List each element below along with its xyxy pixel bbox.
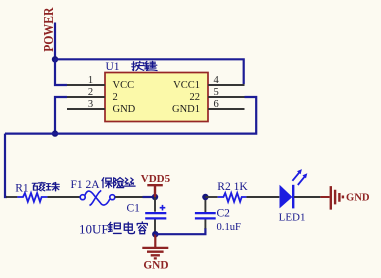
svg-text:LED1: LED1 bbox=[279, 212, 306, 224]
wire C1 node to C2 bottom bbox=[155, 228, 205, 234]
wire top rail to pin 4 bbox=[55, 59, 244, 84]
svg-text:R2 1K: R2 1K bbox=[217, 181, 248, 193]
svg-text:4: 4 bbox=[214, 75, 220, 86]
svg-text:2: 2 bbox=[113, 92, 118, 103]
svg-text:10UF: 10UF bbox=[79, 221, 109, 236]
capacitor C1 bbox=[154, 197, 156, 212]
svg-text:22: 22 bbox=[190, 92, 201, 103]
wire to pin 1 bbox=[55, 59, 67, 85]
svg-text:2: 2 bbox=[88, 87, 93, 98]
power port VDD5 bbox=[147, 185, 163, 197]
wire left drop to R1 bbox=[5, 134, 7, 197]
LED arrow 1 bbox=[292, 172, 299, 180]
pin 3 bbox=[67, 108, 105, 110]
svg-text:6: 6 bbox=[214, 99, 219, 110]
svg-text:VCC1: VCC1 bbox=[173, 80, 200, 91]
wire POWER vertical bbox=[54, 23, 56, 60]
svg-text:GND: GND bbox=[143, 259, 168, 271]
svg-text:5: 5 bbox=[214, 87, 219, 98]
LED arrow 2 bbox=[298, 177, 305, 185]
junction C1 bottom node bbox=[152, 231, 158, 237]
junction C2/R2 node bbox=[202, 194, 208, 200]
pin 2 bbox=[67, 96, 105, 98]
pin 5 bbox=[208, 96, 245, 98]
junction VDD5 node bbox=[152, 194, 158, 200]
wire pin 2 to bottom rail bbox=[55, 97, 67, 134]
svg-text:C1: C1 bbox=[127, 203, 141, 215]
svg-text:VCC: VCC bbox=[113, 80, 135, 91]
capacitor C2 bbox=[204, 197, 206, 212]
svg-text:POWER: POWER bbox=[40, 7, 56, 52]
junction at POWER tap bbox=[52, 56, 58, 62]
fuse F1 bbox=[80, 195, 85, 200]
pin 4 bbox=[208, 84, 245, 86]
resistor R2 bbox=[205, 196, 217, 198]
op-amp U1 body (按键 block) bbox=[105, 73, 208, 122]
svg-text:3: 3 bbox=[88, 99, 93, 110]
svg-text:U1: U1 bbox=[106, 61, 120, 73]
pin 1 bbox=[67, 84, 105, 86]
svg-text:F1 2A: F1 2A bbox=[71, 179, 101, 191]
svg-text:GND: GND bbox=[113, 104, 136, 115]
svg-text:GND1: GND1 bbox=[172, 104, 200, 115]
label 按键 bbox=[132, 61, 144, 70]
svg-text:R1: R1 bbox=[15, 182, 29, 194]
ground right (after LED) bbox=[320, 196, 329, 198]
wire bottom long rail bbox=[5, 97, 256, 134]
svg-text:0.1uF: 0.1uF bbox=[217, 222, 242, 233]
pin 6 bbox=[208, 108, 245, 110]
wire F1 to VDD5 node bbox=[143, 196, 156, 198]
ground under C1 bbox=[154, 234, 156, 247]
svg-text:1: 1 bbox=[88, 75, 93, 86]
LED LED1 bbox=[280, 185, 293, 209]
svg-text:VDD5: VDD5 bbox=[141, 173, 171, 185]
junction on bottom rail bbox=[52, 130, 58, 136]
svg-text:C2: C2 bbox=[217, 207, 231, 219]
svg-text:GND: GND bbox=[346, 192, 370, 203]
resistor R1 (ferrite bead) bbox=[6, 196, 17, 198]
